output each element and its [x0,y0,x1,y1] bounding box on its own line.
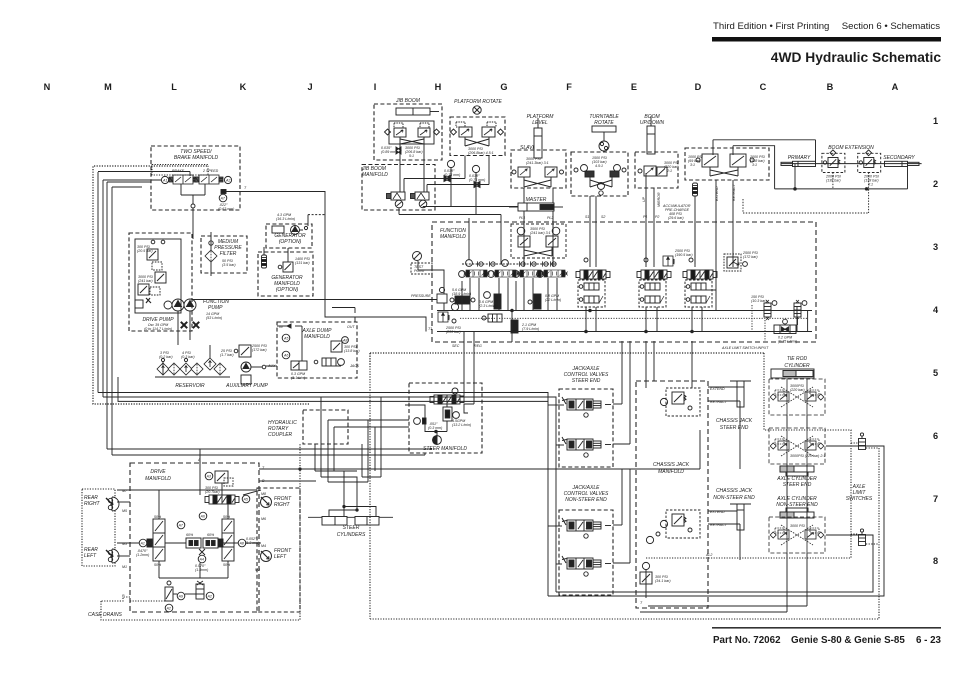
jib boom cylinder [396,108,439,115]
svg-text:(190.5 bar): (190.5 bar) [675,253,693,257]
svg-text:4WD Hydraulic Schematic: 4WD Hydraulic Schematic [771,50,942,65]
svg-text:(0.2 bar): (0.2 bar) [159,355,173,359]
stack3 sub valves [685,280,712,307]
svg-text:(1.2mm): (1.2mm) [136,553,149,557]
svg-text:2: 2 [933,179,938,189]
svg-text:(220 bar): (220 bar) [790,388,805,392]
column letters [44,82,899,92]
svg-text:SEC: SEC [452,344,460,348]
jack/axle control valves non-steer end box [559,485,613,595]
svg-text:(0.3 bar): (0.3 bar) [181,355,195,359]
filter diamond [205,232,236,276]
svg-text:6: 6 [933,431,938,441]
jack/axle steer valve 1 [562,397,611,417]
svg-text:4: 4 [933,305,939,315]
svg-text:K: K [240,82,247,92]
svg-text:3000 PSI: 3000 PSI [790,524,805,528]
right relief 2500psi [724,251,758,271]
svg-text:MANIFOLD: MANIFOLD [362,172,388,178]
svg-text:P2: P2 [655,215,659,219]
proportional stack 2 [637,258,671,279]
svg-text:CHASSIS JACK: CHASSIS JACK [716,488,753,494]
right orifice A8 [218,537,259,547]
svg-text:CASE DRAINS: CASE DRAINS [88,612,123,618]
mid relief 2500psi [663,249,693,266]
svg-text:PL1: PL1 [519,216,525,220]
axle dump manifold box [267,322,360,378]
svg-text:E: E [631,82,637,92]
svg-text:(0 to 114.7 L/min): (0 to 114.7 L/min) [144,327,172,331]
medium pressure filter box [201,236,247,273]
svg-text:(20.5 bar): (20.5 bar) [137,249,153,253]
svg-text:MIRROR: MIRROR [657,192,661,207]
svg-text:RIGHT: RIGHT [274,502,291,508]
svg-text:MANIFOLD: MANIFOLD [658,469,684,475]
svg-text:SECONDARY: SECONDARY [883,155,915,161]
svg-text:NON-STEER END: NON-STEER END [713,495,755,501]
svg-text:(2.3 L/min): (2.3 L/min) [479,304,496,308]
svg-text:AXLE LIMIT SWITCH INPUT: AXLE LIMIT SWITCH INPUT [721,346,769,350]
svg-text:(34.1 bar): (34.1 bar) [655,579,671,583]
rear right motor [106,497,119,511]
svg-text:NON-STEER END: NON-STEER END [776,502,818,508]
two speed / brake manifold box [151,146,240,210]
svg-text:3:1: 3:1 [690,163,695,167]
svg-text:1: 1 [933,116,938,126]
svg-text:3:1: 3:1 [752,163,757,167]
svg-text:N: N [44,82,51,92]
svg-text:S2: S2 [601,215,605,219]
pressure port [192,287,447,303]
steer manifold box [409,383,482,453]
svg-text:(16.3 L/min): (16.3 L/min) [276,217,295,221]
lower-left trunk horizontals [98,377,556,596]
stack1 sub valves [578,280,605,307]
two speed valve [195,169,232,184]
svg-text:7: 7 [933,494,938,504]
svg-text:Genie S-80 & Genie S-85: Genie S-80 & Genie S-85 [791,635,905,646]
svg-text:Section 6 • Schematics: Section 6 • Schematics [842,21,940,32]
limit switch 2 [859,529,866,546]
svg-text:M: M [104,82,112,92]
svg-text:A1: A1 [140,542,145,546]
axle limit dotted bus [370,346,769,365]
svg-text:BRAKE MANIFOLD: BRAKE MANIFOLD [174,155,219,161]
svg-text:STEER END: STEER END [720,425,749,431]
svg-text:L: L [171,82,177,92]
front right motor [261,497,272,508]
function valve 4 [537,270,568,277]
svg-text:P1: P1 [643,215,647,219]
chassis jack steer end [708,381,753,431]
check valve row [462,260,556,267]
svg-text:8: 8 [933,556,938,566]
svg-text:(206.8bar) 4.5:1: (206.8bar) 4.5:1 [468,151,494,155]
axle cylinder steer end [769,428,825,488]
test point gauge [411,252,444,311]
svg-text:CHASSIS JACK: CHASSIS JACK [653,462,690,468]
svg-text:T: T [244,186,247,190]
svg-text:(241 bar): (241 bar) [138,279,153,283]
platform level label [527,114,555,126]
svg-text:60%: 60% [207,533,215,537]
master cylinder [509,197,563,211]
svg-text:MANIFOLD: MANIFOLD [304,334,330,340]
svg-text:A2: A2 [207,595,212,599]
axle cylinder non-steer end [769,496,825,553]
svg-text:(29.6 bar): (29.6 bar) [668,216,684,220]
flow regulator 5.6gpm [450,288,475,311]
accumulator [662,183,698,264]
axle dump internals [277,324,360,380]
svg-text:COUPLER: COUPLER [268,432,293,438]
proportional stack 1 [576,258,610,279]
svg-text:(13.8 bar): (13.8 bar) [344,349,360,353]
boom extension valve 2 [858,150,881,187]
svg-text:50%: 50% [154,563,162,567]
steer cylinder feed verticals [315,397,409,516]
svg-text:MASTER: MASTER [526,197,547,203]
svg-text:(1.7 bar): (1.7 bar) [220,353,234,357]
svg-text:PRIMARY: PRIMARY [788,155,811,161]
svg-text:Part No. 72062: Part No. 72062 [713,635,781,646]
svg-text:A6: A6 [283,354,288,358]
svg-text:A8: A8 [239,542,244,546]
function valve 2 [488,270,519,277]
svg-text:(241.3bar) 3:1: (241.3bar) 3:1 [526,161,549,165]
svg-text:A9: A9 [178,595,183,599]
svg-text:(172 bar): (172 bar) [743,255,758,259]
axle limit switches [846,484,873,502]
manifold buses [437,267,812,333]
stack2 sub valves [639,280,666,307]
front motors dashed box [257,488,300,612]
jib boom manifold solenoid valve 1 [387,192,406,208]
svg-text:UP: UP [642,196,646,202]
jib boom valve block [385,121,440,144]
chassis manifold relief [640,562,671,605]
svg-text:CYLINDER: CYLINDER [784,363,810,369]
svg-text:60%: 60% [186,533,194,537]
svg-text:UP/DOWN: UP/DOWN [640,120,665,126]
svg-text:(22 L/min): (22 L/min) [545,298,561,302]
svg-text:(1.8mm): (1.8mm) [195,568,208,572]
svg-text:A5: A5 [243,498,248,502]
svg-text:(3.5 bar): (3.5 bar) [222,263,236,267]
svg-text:B: B [827,82,834,92]
drive manifold wires [117,461,261,578]
svg-text:BOOM EXTENSION: BOOM EXTENSION [828,145,874,151]
svg-text:RIGHT: RIGHT [84,501,101,507]
svg-text:A8: A8 [342,339,347,343]
drive pump internals [135,239,181,313]
platform rotate routing [404,156,489,215]
svg-text:LEFT: LEFT [84,553,97,559]
slave cylinder [520,118,542,158]
svg-text:4.5:1: 4.5:1 [595,164,603,168]
svg-text:I: I [374,82,377,92]
footer rule [712,627,941,629]
extend/retract wires [715,180,736,238]
svg-text:(0.75 L/min): (0.75 L/min) [778,340,797,344]
svg-text:(131 bar): (131 bar) [295,261,310,265]
drive manifold bottom components [130,581,214,612]
svg-text:(OPTION): (OPTION) [276,287,299,293]
pilot accumulator cartridge 2 [794,300,807,317]
svg-text:(7.9 L/min): (7.9 L/min) [522,327,539,331]
steer cylinders [308,517,393,539]
drive manifold top relief A3 [205,471,233,494]
front left motor [261,551,272,562]
svg-text:M1: M1 [122,565,127,569]
2.1gpm cartridge [511,320,539,333]
brake manifold internals [152,165,432,332]
jack/axle steer valve 2 [562,437,611,457]
jack/axle non-steer valve 1 [562,518,611,538]
svg-text:M4: M4 [261,544,266,548]
svg-text:(200 bar): (200 bar) [446,330,461,334]
svg-text:PUMP: PUMP [208,305,223,311]
generator manifold option box [258,252,313,296]
brake valve [161,169,197,184]
svg-text:MANIFOLD: MANIFOLD [145,476,171,482]
svg-text:(1.1 L/m): (1.1 L/m) [291,376,305,380]
secondary cylinder [885,161,920,166]
platform rotate orifice check right [469,165,485,187]
svg-text:3: 3 [933,242,938,252]
svg-text:2 SPEED: 2 SPEED [202,169,219,173]
svg-text:STEER: STEER [343,525,360,531]
svg-text:BRAKE: BRAKE [172,169,185,173]
function valve 3 [513,270,544,277]
svg-text:F: F [566,82,572,92]
svg-text:50%: 50% [154,515,162,519]
svg-text:A4: A4 [199,558,204,562]
drive pump box [129,233,192,331]
svg-text:RETRACT: RETRACT [732,183,736,201]
left orifice A1 [136,539,152,557]
rear motors dotted box [82,489,115,566]
svg-text:NON-STEER END: NON-STEER END [565,497,607,503]
platform rotate motor [473,106,481,114]
turntable rotate valve box [571,152,628,196]
hydraulic rotary coupler [268,410,348,444]
proportional stack 3 [683,258,717,279]
svg-text:CHASSIS JACK: CHASSIS JACK [716,418,753,424]
svg-text:MANIFOLD: MANIFOLD [440,234,466,240]
left trunk verticals [98,172,190,456]
jack/axle control valves steer end box [559,366,613,467]
boom extension circuit labels [788,145,916,161]
limit switch dotted wiring [370,353,879,619]
boom up/down wires [642,173,661,267]
flow valve 0.6gpm [479,292,501,309]
svg-text:J: J [307,82,312,92]
svg-text:D: D [695,82,702,92]
svg-text:50%: 50% [223,515,231,519]
pl1 pl2 relief block [511,224,566,258]
svg-text:A5: A5 [283,337,288,341]
chassis jack manifold box [636,381,708,608]
jib manifold wires [399,144,520,264]
boom extend/retract valve box [685,148,769,180]
platform rotate orifice check left [444,160,460,181]
chassis manifold bottom valve cluster [646,510,700,544]
tie rod cylinder [769,356,825,415]
svg-text:(10.3 bar): (10.3 bar) [751,299,767,303]
svg-text:REG: REG [474,344,482,348]
jib boom manifold solenoid valve 2 [411,192,430,208]
svg-text:RESERVOIR: RESERVOIR [175,383,205,389]
svg-text:A7: A7 [178,524,184,528]
crossover shuttle valve [752,305,798,344]
primary cylinder [781,161,816,166]
svg-text:EXTEND: EXTEND [710,387,725,391]
center divider block [177,512,218,572]
auxiliary pump [225,344,277,389]
svg-text:(53 L/min): (53 L/min) [206,316,222,320]
limit switch 1 [859,433,866,450]
svg-text:JIB BOOM: JIB BOOM [395,98,421,104]
right bottom trunk wires [548,341,884,612]
svg-text:S1: S1 [585,215,589,219]
turntable rotate [589,114,619,151]
svg-text:M5: M5 [122,509,127,513]
svg-text:A6: A6 [200,515,205,519]
steer manifold internals [405,388,471,444]
jack/axle non-steer valve 2 [562,556,611,576]
platform rotate valves [451,122,504,155]
generator option box [266,213,325,248]
left valve stack [153,515,165,567]
svg-text:A1: A1 [162,179,167,183]
svg-text:5:1: 5:1 [409,154,414,158]
turntable wires [585,196,605,267]
svg-text:OUT: OUT [347,325,355,329]
svg-text:(0.89 mm): (0.89 mm) [381,150,397,154]
svg-text:C: C [760,82,767,92]
drops below manifold [459,310,512,413]
svg-text:5: 5 [933,368,938,378]
svg-text:STEER END: STEER END [572,378,601,384]
svg-text:T: T [640,601,643,605]
svg-text:M8: M8 [261,492,266,496]
svg-text:A2: A2 [225,179,230,183]
rear left motor [106,549,119,563]
relief 2500psi left [438,312,461,334]
drive manifold box [130,463,259,612]
function manifold box [432,222,816,348]
svg-text:50%: 50% [223,563,231,567]
svg-text:(20.7bar): (20.7bar) [205,490,220,494]
svg-text:2:1: 2:1 [666,169,672,173]
boom extension valve 1 [822,150,845,183]
svg-text:M2: M2 [255,568,260,572]
svg-text:(13.2 L/min): (13.2 L/min) [452,423,471,427]
row numbers [933,116,939,566]
svg-text:AUX: AUX [267,364,276,368]
pilot accumulator cartridge 1 [751,295,777,320]
wires platform level [519,188,553,264]
svg-text:(0.76 mm): (0.76 mm) [469,178,485,182]
svg-text:A7: A7 [220,197,226,201]
svg-text:M6: M6 [261,517,266,521]
generator manifold internals [262,247,310,272]
svg-text:6 - 23: 6 - 23 [916,635,942,646]
platform level valve box [511,150,566,188]
drive manifold flow divider [205,495,250,504]
svg-text:LEVEL: LEVEL [532,120,548,126]
left dotted trunk [93,166,310,404]
platform rotate box [450,99,505,156]
pump shaft cross symbols [178,311,199,345]
svg-text:AL2: AL2 [705,553,712,557]
right valve stack [222,515,234,567]
svg-text:(241 bar) 3:1: (241 bar) 3:1 [530,231,551,235]
svg-text:LEFT: LEFT [274,554,287,560]
svg-text:A2: A2 [166,607,171,611]
svg-text:SWITCHES: SWITCHES [846,496,873,502]
chassis manifold top valve cluster [660,388,700,416]
svg-text:Third Edition • First Printing: Third Edition • First Printing [713,21,829,32]
svg-text:FILTER: FILTER [220,251,237,257]
T and B lines to right [107,449,700,481]
jib boom cylinder box [374,98,442,160]
jib boom K orifice and texts [381,146,423,158]
reservoir [155,345,234,389]
svg-text:PRESSURE: PRESSURE [411,294,431,298]
svg-text:A: A [892,82,899,92]
svg-text:PLATFORM ROTATE: PLATFORM ROTATE [454,99,502,105]
svg-text:DRIVE: DRIVE [150,469,166,475]
svg-text:(OPTION): (OPTION) [279,239,302,245]
svg-text:CYLINDERS: CYLINDERS [337,532,366,538]
svg-text:PL2: PL2 [547,216,553,220]
boom up/down valve box [635,152,679,188]
header bar [712,37,941,42]
svg-text:EXTEND: EXTEND [715,186,719,201]
boom up/down [640,114,665,154]
hh valve [482,314,502,322]
svg-text:3000PSI (220 bar) 2:1: 3000PSI (220 bar) 2:1 [790,454,825,458]
drive manifold port labels [122,458,266,598]
function pump [164,299,229,320]
svg-text:(172 bar): (172 bar) [252,348,267,352]
chassis jack non-steer end [708,488,755,530]
svg-text:(0.63 mm): (0.63 mm) [218,207,234,211]
svg-text:H: H [435,82,442,92]
function valve 1 [459,270,490,277]
svg-text:(0.3 mm): (0.3 mm) [428,426,442,430]
case drains label [88,612,123,618]
svg-text:TIE ROD: TIE ROD [787,356,808,362]
svg-text:JACK: JACK [349,364,360,368]
0.8gpm cartridge [528,294,561,309]
boom extension bus wires [713,140,922,213]
jib boom manifold box [361,165,435,211]
svg-text:ROTATE: ROTATE [594,120,614,126]
case drain dotted loop [101,444,300,620]
svg-text:G: G [500,82,507,92]
feeds into manifold [469,218,733,267]
svg-text:A3: A3 [206,475,211,479]
